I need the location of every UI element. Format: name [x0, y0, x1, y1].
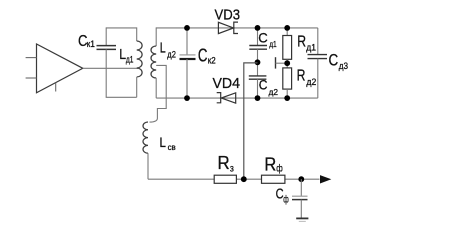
resistor Rf — [262, 175, 285, 183]
label Rf — [264, 154, 282, 174]
wire divider midpoint to output junction — [244, 63, 258, 179]
label R3 — [218, 153, 235, 175]
label Ck2 — [198, 44, 216, 66]
node tank2 bottom junction — [184, 95, 190, 101]
svg-text:R: R — [264, 154, 276, 174]
svg-text:R: R — [297, 67, 306, 84]
ground — [296, 218, 308, 221]
svg-text:С: С — [198, 44, 208, 65]
node R divider midpoint — [284, 60, 290, 66]
svg-text:ф: ф — [276, 162, 283, 174]
capacitor Cd2 — [249, 76, 267, 98]
svg-text:д1: д1 — [306, 42, 316, 53]
wire Ld2 tap to Lsv — [150, 65, 167, 122]
svg-text:С: С — [258, 29, 268, 45]
label Cd1 — [258, 29, 277, 49]
label Rd1 — [297, 34, 316, 54]
node Rd1 top junction — [284, 25, 290, 31]
svg-text:R: R — [297, 34, 306, 51]
svg-text:к1: к1 — [87, 39, 95, 49]
svg-text:С: С — [259, 77, 268, 93]
label Ld2 — [160, 40, 176, 59]
label Rd2 — [297, 67, 317, 88]
label Ld1 — [119, 46, 133, 66]
inductor Lsv — [143, 122, 148, 153]
svg-text:з: з — [230, 163, 234, 175]
wire tank2 top rail — [156, 27, 318, 29]
inductor Ld1 — [137, 41, 142, 77]
node output junction R3 — [241, 176, 247, 182]
wire tank1 left upper — [105, 27, 107, 45]
label Cd3 — [329, 52, 349, 72]
label Cd2 — [259, 77, 279, 97]
wire Ld2 bottom stem — [155, 78, 157, 98]
wire tank2 bottom rail — [156, 97, 318, 99]
svg-text:д2: д2 — [269, 87, 279, 97]
node Cd2 bottom junction — [255, 95, 261, 101]
node Cd divider midpoint — [255, 59, 261, 65]
capacitor Ck2 — [180, 28, 196, 98]
node tank2 top junction — [184, 25, 190, 31]
svg-text:VD3: VD3 — [215, 6, 241, 23]
wire tank1 bottom — [106, 96, 137, 98]
wire output rail — [148, 178, 320, 180]
output arrow — [320, 175, 331, 183]
diode VD4 — [217, 93, 236, 104]
wire tank1 right stem bottom — [136, 77, 138, 97]
capacitor Cd1 — [249, 28, 267, 76]
wire tank1 top — [106, 27, 137, 29]
svg-text:ф: ф — [283, 193, 289, 205]
capacitor Cd3 — [308, 28, 328, 98]
resistor R3 — [214, 175, 236, 183]
inductor Ld2 — [151, 46, 156, 78]
diode VD3 — [218, 22, 238, 33]
wire amp output to L_d1 tap — [83, 67, 138, 69]
label Cf — [276, 186, 289, 205]
label Ck1 — [78, 33, 95, 50]
svg-text:св: св — [168, 143, 176, 152]
svg-text:к2: к2 — [208, 56, 216, 67]
svg-text:д1: д1 — [269, 39, 277, 49]
capacitor Cf — [292, 179, 308, 218]
node Rd2 bottom junction — [284, 95, 290, 101]
resistor Rd2 — [283, 63, 292, 98]
wire tank2 left stem — [155, 27, 157, 46]
wire tank1 right stem top — [136, 27, 138, 41]
svg-text:L: L — [160, 134, 167, 150]
svg-text:д3: д3 — [339, 61, 348, 72]
svg-text:С: С — [329, 52, 339, 70]
svg-text:R: R — [218, 153, 230, 173]
wire Lsv bottom stem — [147, 153, 149, 179]
label Lsv — [160, 134, 176, 152]
node output junction Cf — [298, 176, 304, 182]
svg-text:д2: д2 — [167, 49, 176, 59]
svg-text:д1: д1 — [126, 55, 134, 66]
op-amp U1 — [26, 44, 83, 93]
wire plate stub to R divider — [276, 57, 288, 68]
capacitor Ck1 — [97, 46, 117, 50]
resistor Rd1 — [283, 28, 292, 63]
wire tank1 left lower — [105, 49, 107, 97]
svg-text:VD4: VD4 — [213, 75, 241, 92]
node Cd1 top junction — [255, 25, 261, 31]
svg-text:L: L — [160, 40, 166, 56]
svg-text:д2: д2 — [306, 77, 316, 88]
